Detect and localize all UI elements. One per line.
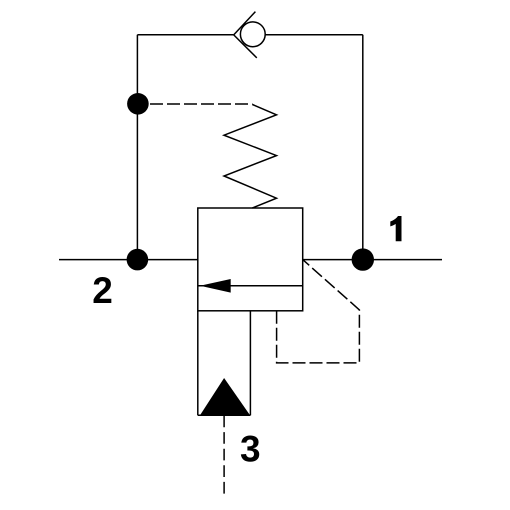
svg-text:3: 3	[240, 428, 261, 469]
svg-text:2: 2	[92, 270, 113, 311]
